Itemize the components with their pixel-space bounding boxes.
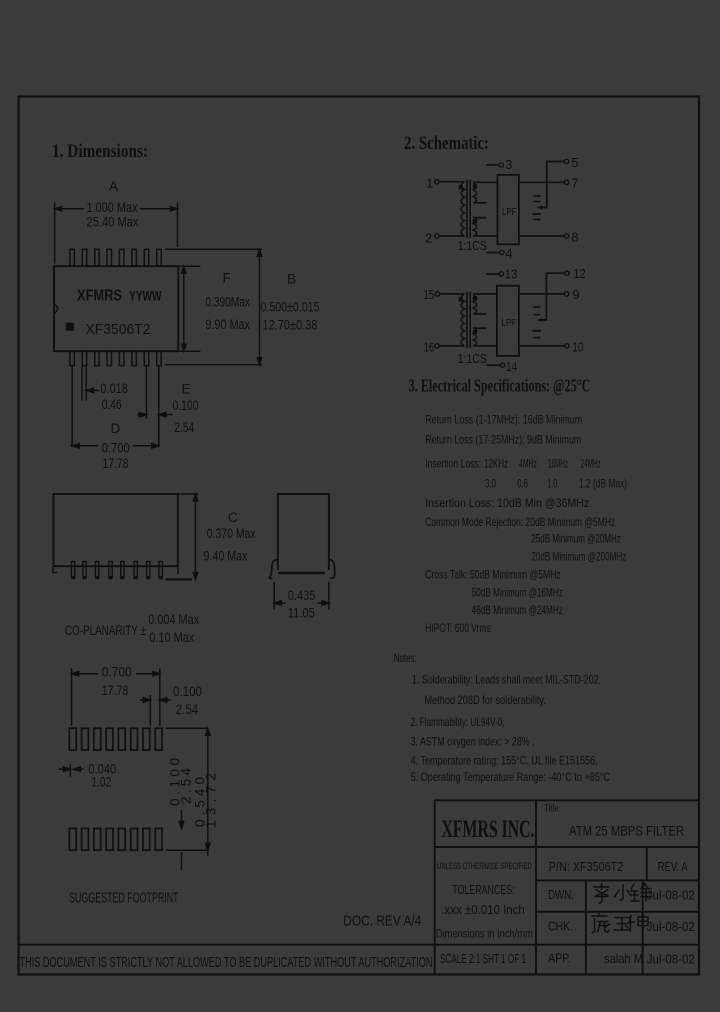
svg-text:.xxx ±0.010 Inch: .xxx ±0.010 Inch bbox=[441, 903, 525, 917]
svg-text:CO-PLANARITY ±: CO-PLANARITY ± bbox=[65, 623, 146, 638]
svg-text:YYWW: YYWW bbox=[129, 288, 162, 304]
svg-text:D: D bbox=[111, 421, 121, 436]
svg-text:2.54: 2.54 bbox=[176, 702, 199, 717]
dimension 0.435 bbox=[274, 582, 329, 610]
footprint top pad row bbox=[69, 728, 162, 750]
checked by signature bbox=[592, 914, 648, 934]
svg-text:1.000 Max: 1.000 Max bbox=[87, 200, 138, 215]
svg-text:11.05: 11.05 bbox=[288, 606, 315, 621]
pin 7 bbox=[564, 180, 568, 184]
wire T1 secondary top to LPF1 bbox=[473, 181, 497, 183]
transformer T2 secondary top polarity dot bbox=[474, 297, 477, 300]
dimension A line bbox=[55, 203, 178, 264]
capacitor C2 plates bbox=[533, 213, 541, 215]
svg-text:E: E bbox=[182, 382, 191, 397]
wire T2 secondary bottom inner stub bbox=[474, 327, 487, 329]
svg-text:15: 15 bbox=[424, 287, 435, 302]
dimension B line bbox=[165, 249, 262, 365]
bottom pin row (8 pins) bbox=[70, 351, 161, 366]
svg-text:17.78: 17.78 bbox=[102, 683, 129, 698]
svg-text:46dB Minimum @24MHz: 46dB Minimum @24MHz bbox=[472, 603, 563, 617]
svg-text:0.018: 0.018 bbox=[100, 381, 128, 396]
wire pin15 to T2 primary bbox=[440, 293, 465, 295]
svg-text:1.2 (dB Max): 1.2 (dB Max) bbox=[579, 477, 627, 491]
svg-text:Cross Talk: 50dB Minimum @5MHz: Cross Talk: 50dB Minimum @5MHz bbox=[425, 568, 561, 582]
svg-text:9: 9 bbox=[572, 287, 579, 302]
svg-text:0.700: 0.700 bbox=[102, 441, 130, 456]
transformer T1 secondary top polarity dot bbox=[474, 185, 477, 188]
wire T1 secondary bottom to LPF1 bbox=[473, 235, 497, 237]
capacitor C1 plates bbox=[533, 195, 541, 197]
svg-text:20dB Minimum @200MHz: 20dB Minimum @200MHz bbox=[531, 550, 626, 564]
svg-text:4MHz: 4MHz bbox=[519, 457, 537, 471]
svg-text:0.370 Max: 0.370 Max bbox=[207, 526, 256, 541]
svg-text:16: 16 bbox=[424, 340, 435, 355]
svg-text:THIS DOCUMENT IS STRICTLY NOT: THIS DOCUMENT IS STRICTLY NOT ALLOWED TO… bbox=[20, 954, 433, 971]
svg-text:5: 5 bbox=[571, 155, 578, 170]
svg-text:2: 2 bbox=[425, 231, 432, 246]
svg-text:LPF: LPF bbox=[502, 317, 517, 329]
svg-text:salah M: salah M bbox=[604, 951, 643, 966]
svg-text:P/N: XF3506T2: P/N: XF3506T2 bbox=[549, 859, 624, 874]
pin 10 bbox=[565, 344, 569, 348]
pin 13 stub bbox=[486, 273, 498, 275]
svg-text:4. Temperature rating: 155°C.: 4. Temperature rating: 155°C. UL file E1… bbox=[411, 754, 598, 768]
svg-text:50dB Minimum @16MHz: 50dB Minimum @16MHz bbox=[472, 586, 563, 600]
svg-text:DOC. REV A/4: DOC. REV A/4 bbox=[343, 914, 421, 930]
wire T1 secondary top inner stub bbox=[474, 202, 487, 204]
pin 3 stub bbox=[486, 164, 498, 166]
side view lead feet bbox=[71, 577, 163, 580]
pin 14 stub bbox=[486, 364, 500, 366]
svg-text:TOLERANCES:: TOLERANCES: bbox=[452, 883, 515, 897]
svg-text:25dB Minimum @20MHz: 25dB Minimum @20MHz bbox=[531, 532, 621, 546]
transformer T2 secondary top winding bbox=[473, 295, 477, 314]
svg-text:1:1CS: 1:1CS bbox=[458, 351, 487, 366]
transformer T1 secondary top winding bbox=[473, 183, 477, 203]
svg-text:10: 10 bbox=[572, 340, 583, 355]
svg-text:Notes:: Notes: bbox=[394, 651, 417, 665]
LPF1 block bbox=[498, 175, 519, 244]
svg-text:HIPOT: 600 Vrms: HIPOT: 600 Vrms bbox=[425, 621, 491, 635]
wire pin1 to T1 primary bbox=[439, 181, 465, 183]
side view leads bbox=[71, 562, 162, 577]
svg-text:0.390Max: 0.390Max bbox=[205, 295, 250, 310]
svg-text:2. Flammability: UL94V-0,: 2. Flammability: UL94V-0, bbox=[411, 715, 505, 729]
transformer T2 primary polarity dot bbox=[460, 298, 463, 301]
svg-text:APP.: APP. bbox=[548, 951, 571, 966]
svg-text:ATM 25 MBPS FILTER: ATM 25 MBPS FILTER bbox=[569, 823, 684, 838]
svg-text:7: 7 bbox=[571, 176, 578, 191]
svg-text:XFMRS INC.: XFMRS INC. bbox=[442, 816, 535, 843]
wire T1 secondary bottom inner stub bbox=[474, 217, 487, 219]
wire LPF1 to pin 7 bbox=[519, 181, 564, 183]
capacitor C4 plates bbox=[533, 330, 541, 332]
svg-text:DWN.: DWN. bbox=[548, 887, 574, 902]
dimension C line bbox=[165, 494, 198, 580]
end view body bottom edge bbox=[278, 572, 325, 575]
svg-text:0.435: 0.435 bbox=[288, 588, 316, 603]
svg-text:Dimensions in Inch/mm: Dimensions in Inch/mm bbox=[436, 929, 533, 941]
svg-text:3.0: 3.0 bbox=[485, 477, 496, 491]
wire junction to capacitor mid bbox=[540, 182, 547, 207]
footprint pad width dimension 0.040 bbox=[59, 764, 84, 777]
svg-text:0.100: 0.100 bbox=[173, 398, 199, 413]
pin1 side D indicator bbox=[54, 304, 58, 313]
dimension 0.018 extension lines bbox=[82, 366, 99, 401]
footprint row gap dimension marks bbox=[179, 810, 183, 870]
svg-text:2. Schematic:: 2. Schematic: bbox=[404, 134, 489, 154]
pin 9 bbox=[564, 292, 568, 296]
svg-text:XFMRS: XFMRS bbox=[77, 288, 122, 305]
wire T2 secondary bottom to LPF2 bbox=[473, 345, 497, 347]
svg-text:0.100: 0.100 bbox=[173, 684, 202, 699]
svg-text:Title:: Title: bbox=[544, 804, 561, 815]
side view body corner hooks bbox=[53, 567, 58, 573]
svg-text:Jul-08-02: Jul-08-02 bbox=[647, 920, 695, 934]
svg-text:Jul-08-02: Jul-08-02 bbox=[647, 889, 695, 903]
svg-text:A: A bbox=[109, 179, 118, 194]
LPF2 block bbox=[497, 286, 519, 356]
package body top view bbox=[54, 266, 178, 351]
pin1 dot marker bbox=[67, 324, 74, 331]
svg-text:13: 13 bbox=[505, 267, 518, 282]
transformer T2 secondary bottom winding bbox=[473, 328, 477, 347]
transformer T2 secondary bottom polarity dot bbox=[474, 331, 477, 334]
drawn by signature bbox=[594, 883, 651, 904]
svg-text:12: 12 bbox=[573, 266, 586, 281]
top pin row (8 pins) bbox=[70, 249, 161, 266]
pin 12 bbox=[565, 271, 569, 275]
footprint row span dimension 0.540 bbox=[166, 728, 210, 856]
svg-text:REV. A: REV. A bbox=[658, 859, 688, 874]
svg-text:0.10 Max: 0.10 Max bbox=[149, 630, 194, 645]
pin 8 bbox=[564, 234, 568, 238]
end view gull-wing lead left bbox=[269, 560, 278, 579]
svg-text:Return Loss (17-25MHz): 9dB Mi: Return Loss (17-25MHz): 9dB Minimum bbox=[425, 433, 581, 447]
svg-text:0.700: 0.700 bbox=[102, 665, 132, 680]
wire T2 secondary top inner stub bbox=[474, 313, 487, 315]
wire pin16 to T2 primary bbox=[439, 345, 464, 347]
svg-text:LPF: LPF bbox=[502, 206, 517, 218]
svg-text:0.6: 0.6 bbox=[517, 477, 528, 491]
svg-text:0.500±0.015: 0.500±0.015 bbox=[261, 300, 320, 315]
svg-text:1. Solderability: Leads shall: 1. Solderability: Leads shall meet MIL-S… bbox=[412, 673, 601, 687]
svg-text:Insertion Loss:: Insertion Loss: bbox=[425, 457, 481, 471]
pin 5 bbox=[564, 159, 568, 163]
transformer T1 secondary bottom winding bbox=[473, 217, 477, 237]
transformer T2 core bbox=[466, 292, 468, 348]
capacitor C3 plates bbox=[533, 306, 541, 308]
svg-text:0.004 Max: 0.004 Max bbox=[148, 612, 199, 627]
transformer T1 core bbox=[466, 180, 468, 239]
svg-text:Common Mode Rejection: 20dB Mi: Common Mode Rejection: 20dB Minimum @5MH… bbox=[425, 515, 615, 529]
dimension E lines bbox=[137, 366, 173, 447]
svg-text:12KHz: 12KHz bbox=[484, 457, 508, 471]
wire junction to pin 12 bbox=[546, 273, 564, 294]
svg-text:25.40 Max: 25.40 Max bbox=[87, 215, 139, 230]
dimension F line bbox=[178, 266, 200, 351]
dimension D line bbox=[72, 366, 159, 448]
svg-text:Return Loss (1-17MHz): 16dB Mi: Return Loss (1-17MHz): 16dB Minimum bbox=[425, 413, 582, 427]
wire pin2 to T1 primary bbox=[439, 235, 465, 237]
svg-text:3: 3 bbox=[505, 157, 512, 172]
svg-text:CHK.: CHK. bbox=[548, 919, 573, 934]
footprint dimension 0.700 bbox=[72, 668, 160, 726]
svg-text:F: F bbox=[223, 271, 231, 286]
svg-text:Insertion Loss: 10dB Min @36MH: Insertion Loss: 10dB Min @36MHz bbox=[425, 496, 589, 510]
wire junction to pin 5 bbox=[547, 162, 564, 183]
wire LPF2 to pin 9 bbox=[519, 293, 564, 295]
transformer T2 primary winding bbox=[461, 294, 465, 346]
svg-text:2.54: 2.54 bbox=[174, 420, 194, 435]
svg-text:XF3506T2: XF3506T2 bbox=[86, 321, 151, 338]
svg-text:2.54: 2.54 bbox=[179, 768, 194, 804]
svg-text:3. ASTM oxygen index: > 28% ,: 3. ASTM oxygen index: > 28% , bbox=[411, 735, 535, 749]
svg-text:SCALE 2:1 SHT 1 OF 1: SCALE 2:1 SHT 1 OF 1 bbox=[440, 951, 526, 966]
wire junction to capacitor mid bbox=[540, 294, 546, 320]
svg-text:5. Operating Temperature Range: 5. Operating Temperature Range: -40°C to… bbox=[411, 770, 611, 784]
svg-text:12.70±0.38: 12.70±0.38 bbox=[263, 318, 318, 333]
svg-text:1:1CS: 1:1CS bbox=[458, 238, 487, 253]
svg-text:B: B bbox=[287, 272, 296, 287]
svg-text:4: 4 bbox=[505, 246, 512, 261]
svg-text:Method 208D for solderability.: Method 208D for solderability. bbox=[424, 693, 546, 707]
svg-text:1.0: 1.0 bbox=[547, 477, 557, 491]
svg-text:17.78: 17.78 bbox=[103, 456, 129, 471]
title block outer lines bbox=[19, 800, 700, 973]
svg-text:UNLESS OTHERWISE SPECIFIED: UNLESS OTHERWISE SPECIFIED bbox=[437, 861, 532, 872]
svg-text:24MHz: 24MHz bbox=[581, 457, 601, 471]
svg-text:1: 1 bbox=[426, 176, 433, 191]
pin 4 stub bbox=[486, 252, 499, 254]
svg-text:9.40 Max: 9.40 Max bbox=[204, 549, 248, 564]
side view body bbox=[54, 494, 178, 566]
svg-text:16MHz: 16MHz bbox=[548, 457, 568, 471]
svg-text:0.46: 0.46 bbox=[102, 397, 122, 412]
svg-text:SUGGESTED FOOTPRINT: SUGGESTED FOOTPRINT bbox=[69, 891, 179, 907]
svg-text:8: 8 bbox=[571, 230, 578, 245]
transformer T1 secondary bottom polarity dot bbox=[474, 220, 477, 223]
svg-text:3. Electrical Specifications:: 3. Electrical Specifications: @25°C bbox=[409, 376, 591, 396]
wire T2 secondary top to LPF2 bbox=[473, 293, 497, 295]
wire LPF2 to pin 10 bbox=[519, 345, 564, 347]
footprint bottom pad row bbox=[69, 828, 162, 850]
end view body bbox=[278, 494, 329, 570]
transformer T1 primary polarity dot bbox=[460, 186, 463, 189]
svg-text:Jul-08-02: Jul-08-02 bbox=[647, 953, 695, 967]
end view gull-wing lead right bbox=[329, 560, 335, 579]
wire LPF1 to pin 8 bbox=[519, 235, 564, 237]
transformer T1 primary winding bbox=[461, 182, 465, 236]
svg-text:9.90 Max: 9.90 Max bbox=[205, 317, 250, 332]
svg-text:14: 14 bbox=[506, 359, 517, 374]
svg-text:1.02: 1.02 bbox=[91, 775, 111, 790]
footprint dimension 0.100 bbox=[140, 695, 171, 726]
svg-text:1. Dimensions:: 1. Dimensions: bbox=[52, 142, 148, 162]
svg-text:C: C bbox=[228, 510, 238, 525]
